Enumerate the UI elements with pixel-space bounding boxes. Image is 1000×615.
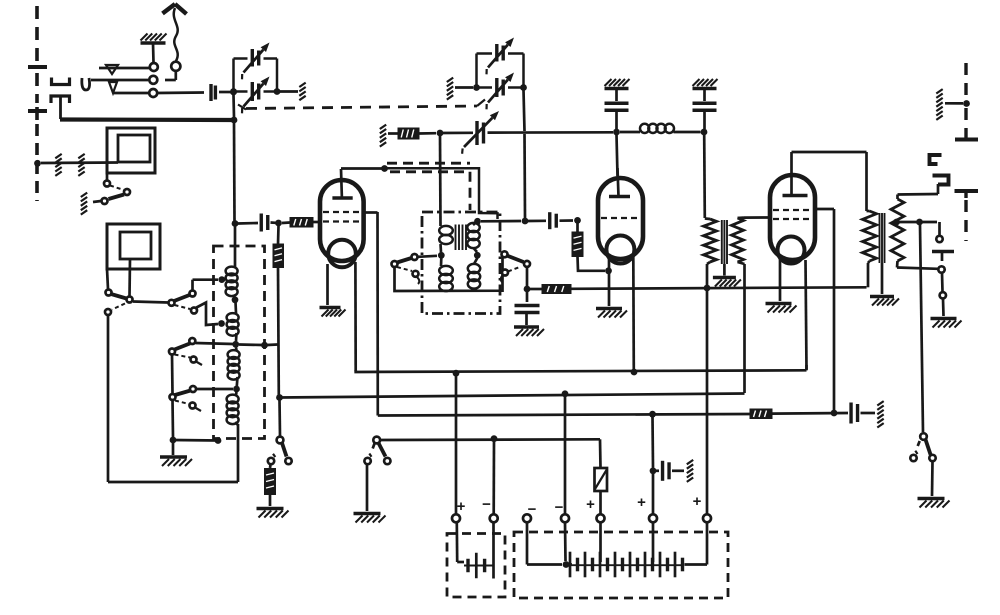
svg-text:+: + [586, 496, 595, 513]
svg-text:+: + [693, 493, 702, 510]
svg-text:−: − [482, 496, 491, 513]
svg-text:+: + [637, 494, 646, 511]
svg-text:+: + [457, 498, 466, 515]
svg-text:−: − [555, 499, 564, 516]
